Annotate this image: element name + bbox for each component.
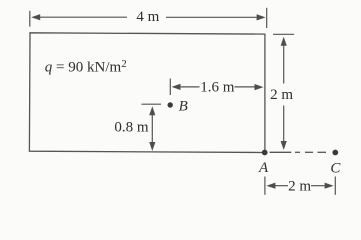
dimension 2 m (bottom): left line segment [275, 185, 288, 187]
dimension 1.6 m: right line segment [235, 86, 256, 88]
dimension 2 m (bottom): right arrowhead [325, 183, 334, 189]
dimension 4 m: right arrowhead [257, 14, 266, 20]
dimension 2 m (bottom): right extension line [334, 177, 336, 195]
dash-dot line from A to C: segment 1 [270, 151, 292, 153]
svg-text:q = 90 kN/m2: q = 90 kN/m2 [45, 58, 127, 76]
dimension 4 m: left extension tick [29, 11, 31, 27]
dimension 0.8 m: down arrowhead [149, 142, 155, 151]
svg-text:B: B [179, 99, 188, 115]
point A dot [262, 150, 268, 156]
dimension 4 m: left line segment [40, 16, 128, 18]
dash-dot line: segment 4 [318, 151, 327, 153]
dimension 2 m (bottom): right line segment [311, 185, 325, 187]
dash-dot line: dot segment [295, 151, 300, 153]
dimension 0.8 m: vertical line [151, 115, 153, 144]
svg-text:0.8 m: 0.8 m [114, 119, 149, 135]
dimension 1.6 m: left extension tick above point B [169, 79, 171, 96]
dimension 2 m (right side): down arrowhead [281, 141, 287, 150]
dimension 4 m: right extension tick [266, 8, 268, 28]
dimension 0.8 m: top tick [142, 103, 162, 105]
point B dot [168, 102, 173, 107]
dimension 2 m (right side): lower line [283, 106, 285, 142]
dimension 4 m: left arrowhead [31, 14, 40, 20]
svg-text:A: A [258, 160, 269, 176]
dimension 1.6 m: left arrowhead [172, 84, 181, 90]
svg-text:C: C [330, 160, 341, 176]
svg-text:1.6 m: 1.6 m [200, 80, 235, 96]
svg-text:4 m: 4 m [136, 9, 159, 25]
dimension 4 m: right line segment [166, 16, 258, 18]
svg-text:2 m: 2 m [270, 87, 293, 103]
dimension 1.6 m: right arrowhead [255, 84, 264, 90]
dimension 2 m (right side): up arrowhead [281, 37, 287, 46]
dimension 2 m (bottom): left arrowhead [266, 183, 275, 189]
dimension 2 m (bottom): left extension line [264, 177, 266, 195]
point C dot [332, 150, 338, 156]
svg-text:2 m: 2 m [288, 178, 311, 194]
dimension 2 m (right side): upper line [283, 45, 285, 84]
dimension 0.8 m: up arrowhead [149, 106, 155, 115]
dimension 1.6 m: left line segment [180, 86, 200, 88]
dash-dot line: segment 3 [305, 151, 313, 153]
dimension 2 m (right side): top tick [273, 33, 294, 35]
loaded rectangular area outline [29, 33, 265, 153]
